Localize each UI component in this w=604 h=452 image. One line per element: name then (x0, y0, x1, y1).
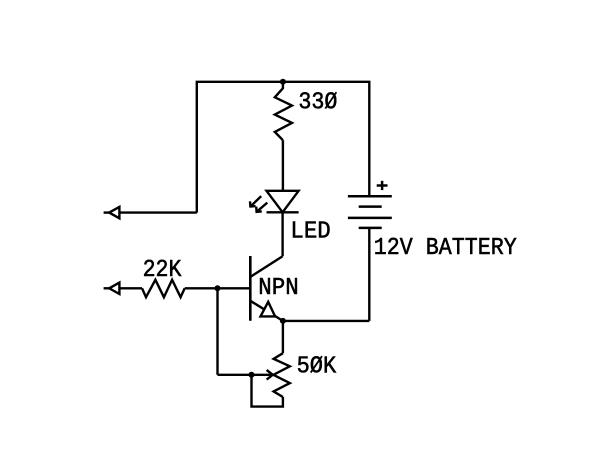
wire emitter to battery negative rail (283, 320, 369, 322)
battery B1 plate 3 long (348, 217, 392, 220)
wire LED cathode to transistor collector (281, 212, 283, 256)
wire R330 bottom to LED anode (282, 140, 284, 191)
node junction dot emitter (280, 318, 286, 324)
wire wiper horizontal (218, 374, 272, 376)
svg-text:12V BATTERY: 12V BATTERY (374, 235, 517, 262)
transistor Q1 base bar (249, 256, 252, 321)
connector arrow (upper left, open triangle with stub) (104, 207, 120, 218)
node junction dot at base / wiper branch (215, 285, 221, 291)
svg-text:33Ø: 33Ø (298, 90, 337, 117)
svg-text:5ØK: 5ØK (297, 354, 337, 381)
transistor Q1 emitter diagonal (250, 301, 283, 321)
LED D1 cathode bar (267, 211, 299, 213)
wire emitter down to potentiometer top (282, 321, 284, 353)
connector arrow (lower left, open triangle with stub) (104, 283, 120, 294)
svg-text:NPN: NPN (258, 275, 298, 302)
svg-text:22K: 22K (143, 257, 182, 284)
svg-text:LED: LED (290, 219, 330, 246)
LED D1 triangle (anode) (267, 191, 299, 213)
node junction dot at top rail / R330 (280, 79, 286, 85)
transistor Q1 emitter arrowhead (open) (261, 302, 276, 317)
wire 22K to transistor base (185, 287, 251, 289)
wire wiper to potentiometer bottom (loop) (252, 375, 283, 407)
battery plus sign (377, 181, 388, 190)
resistor R2 22K (horizontal zigzag) (142, 280, 185, 297)
potentiometer wiper arrowhead (267, 370, 273, 380)
wire arrow to resistor 22K (119, 287, 142, 289)
battery B1 plate 4 short (negative) (359, 227, 382, 230)
LED light emission arrow 1 (250, 196, 261, 206)
battery B1 plate 2 short (359, 205, 382, 208)
resistor R1 330 (vertical zigzag) (275, 82, 292, 140)
wire from left vertical to upper connector arrow (119, 211, 197, 213)
wire base-node down to wiper (216, 288, 218, 375)
potentiometer R3 50K (vertical zigzag) (273, 353, 289, 397)
node junction dot on wiper (249, 372, 255, 378)
wire top rail from left loop to battery positive (197, 82, 369, 213)
LED light emission arrow 2 (256, 203, 267, 212)
transistor Q1 collector diagonal (250, 256, 282, 277)
battery B1 plate 1 long (positive) (348, 195, 392, 198)
wire battery negative down to emitter rail (368, 228, 370, 321)
